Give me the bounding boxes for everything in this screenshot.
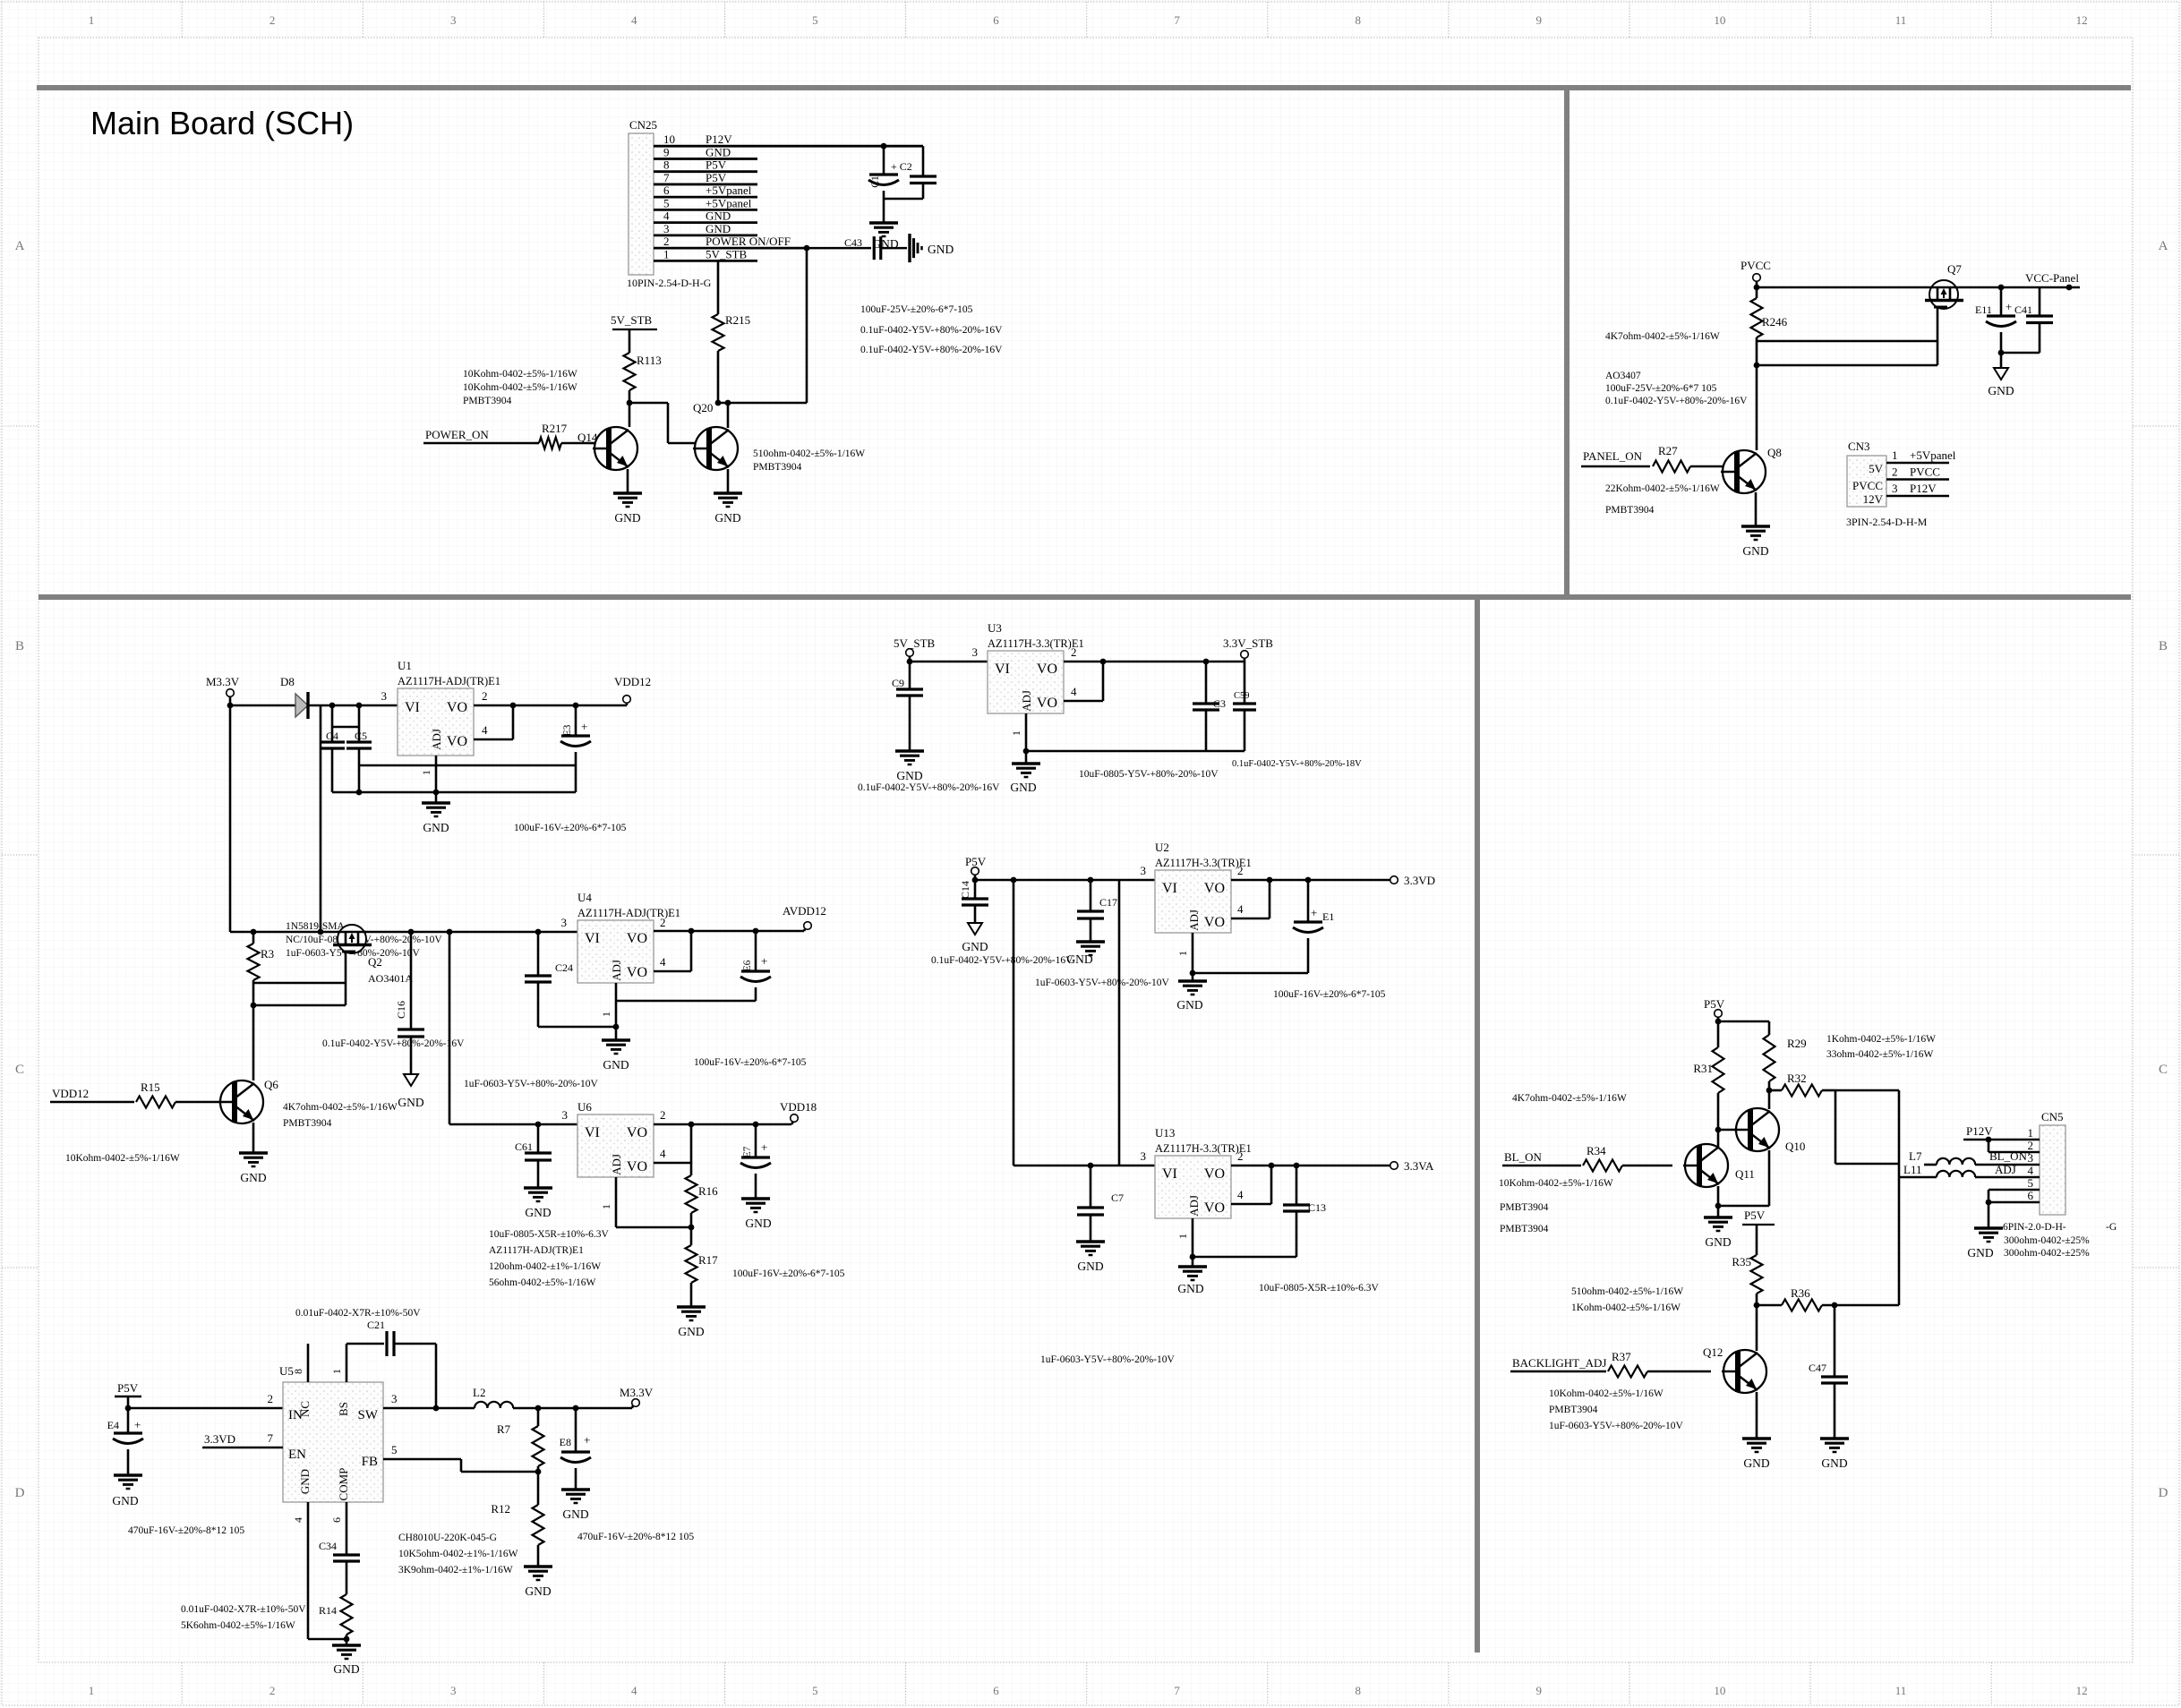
svg-text:4: 4 (660, 955, 666, 969)
svg-text:Q14: Q14 (577, 431, 598, 444)
capacitor E7 (740, 1124, 771, 1199)
svg-text:C4: C4 (326, 730, 338, 742)
wire U1 gnd rail lower (332, 790, 576, 796)
value 0.01uF C34 (181, 1604, 306, 1615)
svg-text:Q6: Q6 (264, 1078, 278, 1091)
value 0.1uF Q2 (322, 1038, 465, 1049)
svg-text:VO: VO (1204, 881, 1225, 896)
value 120ohm (489, 1261, 601, 1272)
svg-text:2: 2 (660, 916, 666, 929)
wire U3 output row (1064, 645, 1244, 664)
svg-text:1: 1 (420, 770, 432, 775)
net label P12V CN5 (1963, 1124, 2040, 1152)
svg-text:1: 1 (1892, 448, 1898, 462)
wire R32 rectangle (1835, 1090, 1899, 1164)
wire U1 output row (474, 703, 627, 709)
svg-text:10uF-0805-X5R-±10%-6.3V: 10uF-0805-X5R-±10%-6.3V (489, 1229, 609, 1240)
power P5V BL (1704, 997, 1725, 1021)
svg-text:GND: GND (1743, 1456, 1769, 1470)
svg-text:PMBT3904: PMBT3904 (463, 396, 512, 406)
svg-text:AO3407: AO3407 (1605, 371, 1641, 381)
svg-text:R246: R246 (1762, 315, 1788, 329)
svg-text:PMBT3904: PMBT3904 (1549, 1405, 1598, 1415)
wire Q8 collector (1756, 365, 1758, 450)
svg-text:AVDD12: AVDD12 (783, 904, 826, 918)
value 0.1uF C59 (1232, 759, 1362, 769)
wire Q10 collector (1768, 1090, 1771, 1109)
capacitor E4 (107, 1408, 143, 1475)
svg-text:+: + (581, 720, 587, 733)
svg-text:C3: C3 (1213, 697, 1226, 710)
svg-text:5: 5 (391, 1443, 398, 1456)
wire U4 gnd rail lower (538, 1024, 619, 1030)
svg-text:VO: VO (627, 965, 647, 980)
svg-text:CN3: CN3 (1848, 440, 1870, 453)
regulator U2 (1155, 841, 1252, 933)
svg-text:10Kohm-0402-±5%-1/16W: 10Kohm-0402-±5%-1/16W (463, 382, 577, 393)
wire U4 ADJ stem (600, 983, 616, 1040)
svg-text:ADJ: ADJ (610, 1154, 623, 1175)
svg-text:GND: GND (706, 145, 731, 158)
regulator U3 (988, 621, 1084, 713)
svg-text:8: 8 (1355, 13, 1361, 27)
svg-text:Q10: Q10 (1785, 1140, 1805, 1153)
svg-text:5: 5 (663, 196, 670, 209)
pin 3 U4 (561, 916, 568, 929)
wire U4 gnd rail upper (616, 1000, 756, 1003)
svg-text:C14: C14 (959, 881, 971, 899)
svg-text:470uF-16V-±20%-8*12 105: 470uF-16V-±20%-8*12 105 (128, 1525, 244, 1536)
wire U2 input row (972, 864, 1155, 883)
value 10PIN-2.54-D-H-G (627, 277, 712, 289)
value 3K9ohm (398, 1565, 513, 1576)
svg-text:33ohm-0402-±5%-1/16W: 33ohm-0402-±5%-1/16W (1826, 1049, 1934, 1060)
connector CN3 (1847, 440, 1886, 507)
regulator U5 (279, 1364, 383, 1502)
capacitor C21 (367, 1319, 436, 1356)
ground below C16 (398, 1074, 423, 1109)
ground below E8 (561, 1490, 590, 1521)
svg-text:6: 6 (993, 1684, 999, 1697)
svg-text:BACKLIGHT_ADJ: BACKLIGHT_ADJ (1512, 1356, 1606, 1370)
transistor Q10 (1718, 1108, 1805, 1153)
svg-text:R27: R27 (1658, 444, 1678, 457)
svg-text:PMBT3904: PMBT3904 (283, 1118, 332, 1129)
svg-text:Main Board (SCH): Main Board (SCH) (90, 105, 354, 141)
svg-text:R3: R3 (261, 947, 274, 961)
svg-text:M3.3V: M3.3V (620, 1386, 654, 1399)
svg-text:VI: VI (585, 1125, 600, 1140)
value 100uF-16V U4 (694, 1057, 807, 1068)
svg-text:AZ1117H-ADJ(TR)E1: AZ1117H-ADJ(TR)E1 (489, 1245, 584, 1256)
power P5V U5 (115, 1381, 141, 1408)
pin 1 stub U5 (330, 1344, 384, 1382)
svg-text:3: 3 (450, 13, 457, 27)
pin 2 U4 (660, 916, 666, 929)
svg-text:9: 9 (1536, 13, 1543, 27)
svg-text:PMBT3904: PMBT3904 (1500, 1224, 1549, 1234)
svg-text:2: 2 (482, 689, 488, 703)
connector CN5 (2040, 1110, 2066, 1215)
svg-text:P12V: P12V (1910, 482, 1937, 495)
transistor Q20 (693, 401, 738, 470)
value 10uF-0805 U3 (1079, 769, 1219, 780)
capacitor C4 (320, 705, 359, 792)
wire U3 input (907, 645, 988, 664)
power M3.3V (206, 675, 240, 705)
power P5V U2 (965, 855, 987, 880)
value 0.1uF C14 (931, 955, 1073, 966)
svg-text:1uF-0603-Y5V-+80%-20%-10V: 1uF-0603-Y5V-+80%-20%-10V (1035, 978, 1169, 988)
svg-text:3: 3 (391, 1392, 398, 1405)
wire U1 ADJ stem (420, 756, 436, 803)
svg-text:3.3VD: 3.3VD (204, 1432, 235, 1446)
net label VDD12 Q6 (50, 1087, 134, 1102)
svg-text:4: 4 (660, 1147, 666, 1160)
power P5V Q12 (1742, 1208, 1775, 1255)
svg-text:0.1uF-0402-Y5V-+80%-20%-16V: 0.1uF-0402-Y5V-+80%-20%-16V (1605, 396, 1748, 406)
pin 8 stub U5 (292, 1344, 308, 1382)
svg-text:+: + (2006, 300, 2012, 313)
net label PANEL_ON (1581, 449, 1650, 466)
wire VCC-Panel (1958, 285, 2080, 291)
svg-text:0.1uF-0402-Y5V-+80%-20%-16V: 0.1uF-0402-Y5V-+80%-20%-16V (858, 782, 1000, 793)
svg-text:4: 4 (292, 1517, 304, 1523)
svg-text:BL_ON’: BL_ON’ (1989, 1149, 2031, 1163)
capacitor C34 (319, 1540, 360, 1594)
svg-text:+5Vpanel: +5Vpanel (1910, 448, 1956, 462)
value PMBT3904 Q14 (463, 396, 512, 406)
wire Q11 emitter (1715, 1186, 1722, 1217)
svg-text:PANEL_ON: PANEL_ON (1583, 449, 1643, 463)
svg-text:22Kohm-0402-±5%-1/16W: 22Kohm-0402-±5%-1/16W (1605, 483, 1720, 494)
svg-text:GND: GND (1176, 998, 1202, 1012)
svg-text:VO: VO (1037, 662, 1057, 677)
ground below C1 C2 (869, 199, 899, 251)
svg-text:GND: GND (1742, 544, 1768, 558)
transistor Q11 (1683, 1144, 1755, 1187)
value 100uF-25V-20%-6*7-105 (860, 304, 973, 315)
svg-text:Q7: Q7 (1947, 262, 1962, 276)
CN5 pin stubs (1989, 1126, 2040, 1202)
wire U13 ADJ stem (1176, 1218, 1296, 1260)
svg-text:U3: U3 (988, 621, 1002, 635)
svg-text:R29: R29 (1787, 1037, 1807, 1050)
svg-text:U1: U1 (398, 659, 412, 672)
svg-text:1: 1 (1010, 730, 1022, 736)
svg-text:U13: U13 (1155, 1126, 1175, 1140)
svg-text:2: 2 (1892, 465, 1898, 479)
svg-text:12: 12 (2076, 1684, 2088, 1697)
ground below C47 (1820, 1439, 1849, 1470)
svg-text:ADJ: ADJ (1020, 690, 1033, 712)
svg-text:GND: GND (333, 1662, 359, 1676)
svg-text:L11: L11 (1903, 1163, 1921, 1176)
wire Q20 collector (725, 400, 731, 428)
value PMBT3904 Q11 (1500, 1202, 1549, 1213)
svg-text:4: 4 (1071, 685, 1077, 698)
resistor R7 (497, 1408, 544, 1474)
value 1uF-0603 Q12 (1549, 1421, 1683, 1431)
svg-text:Q12: Q12 (1703, 1345, 1723, 1359)
svg-text:VI: VI (585, 931, 600, 946)
value 510ohm Q20 (753, 448, 865, 459)
value 1uF-0603 C17 (1035, 978, 1169, 988)
svg-text:5K6ohm-0402-±5%-1/16W: 5K6ohm-0402-±5%-1/16W (181, 1620, 295, 1631)
svg-text:C9: C9 (892, 677, 904, 689)
pin 4 U1 (482, 723, 488, 737)
value PMBT3904 Q10 (1500, 1224, 1549, 1234)
svg-text:L2: L2 (473, 1386, 485, 1399)
regulator U1 (398, 659, 500, 756)
ground below Q8 (1741, 492, 1770, 558)
value 10Kohm line2 (463, 382, 577, 393)
svg-text:3.3VA: 3.3VA (1404, 1159, 1434, 1173)
value 10Kohm BL (1499, 1178, 1613, 1189)
svg-text:A: A (15, 239, 25, 253)
svg-text:P5V: P5V (706, 171, 727, 184)
svg-text:6PIN-2.0-D-H-: 6PIN-2.0-D-H- (2003, 1222, 2066, 1233)
value 0.01uF C21 (295, 1308, 421, 1319)
wire SW row (383, 1392, 475, 1408)
wire PVCC rail (1754, 285, 1929, 291)
svg-text:R14: R14 (319, 1604, 337, 1617)
svg-text:0.1uF-0402-Y5V-+80%-20%-16V: 0.1uF-0402-Y5V-+80%-20%-16V (860, 345, 1003, 355)
capacitor C13 (1283, 1166, 1326, 1257)
value 10Kohm Q12 (1549, 1388, 1664, 1399)
svg-text:VO: VO (1204, 1200, 1225, 1216)
ground below R14 (332, 1645, 361, 1676)
svg-text:PVCC: PVCC (1741, 259, 1771, 272)
value 22Kohm (1605, 483, 1720, 494)
svg-text:510ohm-0402-±5%-1/16W: 510ohm-0402-±5%-1/16W (1571, 1286, 1683, 1297)
svg-text:10uF-0805-Y5V-+80%-20%-10V: 10uF-0805-Y5V-+80%-20%-10V (1079, 769, 1219, 780)
wire U6 ADJ stem (600, 1177, 691, 1227)
capacitor C1 (868, 146, 912, 199)
resistor R36 (1757, 1286, 1899, 1311)
ground below U1 (422, 803, 450, 834)
inductor L11 (1899, 1163, 2040, 1177)
svg-text:AZ1117H-ADJ(TR)E1: AZ1117H-ADJ(TR)E1 (398, 675, 500, 687)
capacitor C14 (959, 880, 988, 923)
svg-text:CN5: CN5 (2041, 1110, 2064, 1123)
svg-text:P5V: P5V (965, 855, 987, 868)
svg-text:10Kohm-0402-±5%-1/16W: 10Kohm-0402-±5%-1/16W (1549, 1388, 1664, 1399)
svg-text:3: 3 (1141, 1149, 1147, 1163)
svg-text:SW: SW (358, 1408, 379, 1422)
svg-text:1: 1 (89, 13, 95, 27)
value 1uF-0603 U1 (286, 948, 420, 959)
svg-text:9: 9 (663, 145, 670, 158)
svg-text:6: 6 (993, 13, 999, 27)
svg-text:ADJ: ADJ (610, 960, 623, 981)
wire U13 pin4 jumper (1231, 1166, 1271, 1204)
svg-text:+: + (1311, 906, 1317, 919)
svg-text:PMBT3904: PMBT3904 (753, 462, 802, 473)
svg-text:4: 4 (663, 209, 670, 223)
resistor R12 (491, 1472, 543, 1567)
capacitor E1 (1293, 880, 1334, 973)
ground below R12 (524, 1567, 552, 1598)
svg-text:GND: GND (745, 1217, 771, 1230)
capacitor C7 (1077, 1166, 1124, 1242)
capacitor C17 (1077, 880, 1117, 942)
svg-text:GND: GND (896, 769, 922, 782)
svg-text:11: 11 (1895, 1684, 1907, 1697)
svg-text:VO: VO (1037, 696, 1057, 711)
ground below E4 (112, 1475, 142, 1507)
svg-text:GND: GND (240, 1171, 266, 1184)
title Main Board (SCH) (90, 105, 354, 141)
value 3PIN-2.54-D-H-M (1846, 516, 1928, 528)
svg-text:E6: E6 (742, 960, 753, 971)
value 1Kohm BL (1826, 1034, 1936, 1045)
transistor Q2 (333, 925, 413, 985)
ground below Q6 (239, 1123, 268, 1184)
wire Q14 collector loop (627, 400, 696, 443)
svg-text:4K7ohm-0402-±5%-1/16W: 4K7ohm-0402-±5%-1/16W (1512, 1093, 1627, 1104)
svg-text:GND: GND (298, 1469, 312, 1494)
capacitor C47 (1809, 1305, 1848, 1439)
svg-text:+ C2: + C2 (891, 160, 912, 173)
ground below E7 (741, 1199, 772, 1230)
svg-text:10Kohm-0402-±5%-1/16W: 10Kohm-0402-±5%-1/16W (463, 369, 577, 380)
wire P5V drop right (1118, 880, 1121, 1166)
svg-text:C7: C7 (1111, 1191, 1124, 1204)
svg-text:2: 2 (268, 1392, 274, 1405)
value 510ohm BL (1571, 1286, 1683, 1297)
svg-text:E11: E11 (1975, 303, 1992, 316)
svg-text:2: 2 (660, 1108, 666, 1122)
svg-text:120ohm-0402-±1%-1/16W: 120ohm-0402-±1%-1/16W (489, 1261, 601, 1272)
svg-text:0.01uF-0402-X7R-±10%-50V: 0.01uF-0402-X7R-±10%-50V (181, 1604, 306, 1615)
svg-text:1: 1 (1176, 1234, 1189, 1239)
svg-text:P5V: P5V (117, 1381, 139, 1395)
wire Q12 collector (1756, 1305, 1758, 1351)
svg-text:CH8010U-220K-045-G: CH8010U-220K-045-G (398, 1533, 497, 1543)
value 5K6ohm R14 (181, 1620, 295, 1631)
resistor R217 (535, 422, 590, 449)
resistor R17 (686, 1227, 719, 1307)
value PMBT3904 Q6 (283, 1118, 332, 1129)
resistor R34 (1583, 1144, 1672, 1172)
svg-text:Q8: Q8 (1767, 446, 1782, 459)
svg-text:A: A (2159, 239, 2168, 253)
value PMBT3904 Q20 (753, 462, 802, 473)
value 0.1uF-0402-Y5V line2 (860, 345, 1003, 355)
value 0.1uF C9 (858, 782, 1000, 793)
svg-text:VO: VO (1204, 1166, 1225, 1182)
wire U6 output row (654, 1108, 791, 1127)
wire Q10 emitter (1718, 1150, 1769, 1206)
svg-text:VI: VI (1162, 1166, 1177, 1182)
ground below C7 (1076, 1242, 1105, 1273)
svg-text:GND: GND (678, 1325, 704, 1338)
value 470uF E8 (577, 1532, 694, 1542)
svg-text:C1: C1 (870, 175, 881, 188)
wire M3.3V row (227, 703, 295, 709)
svg-text:ADJ: ADJ (1995, 1163, 2016, 1176)
resistor R27 (1653, 444, 1726, 473)
svg-text:2: 2 (269, 13, 276, 27)
svg-text:NC: NC (298, 1401, 312, 1417)
svg-text:R36: R36 (1791, 1286, 1810, 1300)
value 300ohm 1 (2004, 1235, 2090, 1246)
svg-text:100uF-16V-±20%-6*7-105: 100uF-16V-±20%-6*7-105 (514, 823, 627, 833)
regulator U13 (1155, 1126, 1252, 1218)
svg-text:U4: U4 (577, 891, 592, 904)
svg-text:GND: GND (525, 1584, 551, 1598)
value 1uF-0603 U6 area (464, 1079, 598, 1089)
value 1N5819-SMA (286, 921, 346, 932)
wire P12V to caps (881, 143, 887, 149)
svg-text:GND: GND (714, 511, 740, 525)
wire M3.3V vertical rail (229, 705, 232, 932)
wire CN5 gnd (1986, 1190, 1992, 1228)
svg-text:GND: GND (603, 1058, 629, 1072)
svg-text:GND: GND (1967, 1246, 1993, 1260)
svg-text:GND: GND (112, 1494, 138, 1507)
value 100uF-16V E7 (732, 1268, 845, 1279)
capacitor E11 (1975, 287, 2016, 353)
svg-text:10K5ohm-0402-±1%-1/16W: 10K5ohm-0402-±1%-1/16W (398, 1549, 518, 1559)
svg-text:1uF-0603-Y5V-+80%-20%-10V: 1uF-0603-Y5V-+80%-20%-10V (1549, 1421, 1683, 1431)
wire U1 pin4 jumper (474, 705, 513, 739)
resistor R15 (136, 1080, 221, 1108)
svg-text:100uF-25V-±20%-6*7 105: 100uF-25V-±20%-6*7 105 (1605, 383, 1717, 394)
svg-text:0.1uF-0402-Y5V-+80%-20%-16V: 0.1uF-0402-Y5V-+80%-20%-16V (322, 1038, 465, 1049)
svg-text:1: 1 (600, 1012, 612, 1017)
wire M3.3V lower rail (230, 929, 577, 935)
ground below Q12 (1742, 1439, 1771, 1470)
svg-text:D8: D8 (280, 675, 295, 688)
svg-text:P5V: P5V (706, 158, 727, 172)
svg-text:C: C (15, 1063, 24, 1077)
pin 6 stub U5 (330, 1502, 346, 1555)
svg-text:C5: C5 (355, 730, 367, 742)
svg-text:U6: U6 (577, 1100, 592, 1114)
value 0.1uF Q7 area (1605, 396, 1748, 406)
wire Q2 gate loop (251, 952, 346, 1008)
ground below C9 (895, 751, 924, 782)
svg-text:3: 3 (1141, 864, 1147, 877)
value 10uF-0805 U6 (489, 1229, 609, 1240)
value 1uF-0603 C7 (1040, 1354, 1175, 1365)
wire POWER ON/OFF (719, 245, 871, 403)
CN3 pin stubs (1886, 448, 1956, 496)
value PMBT3904 Q8 (1605, 505, 1655, 516)
svg-text:8: 8 (292, 1369, 304, 1374)
ground below U2 (1176, 973, 1207, 1012)
net label VCC-Panel (2025, 271, 2079, 285)
value 4K7ohm Q8 area (1605, 331, 1720, 342)
svg-text:3: 3 (1892, 482, 1898, 495)
transistor Q7 (1925, 262, 1963, 309)
svg-text:VO: VO (447, 734, 467, 749)
svg-text:VI: VI (1162, 881, 1177, 896)
svg-text:C43: C43 (844, 236, 862, 249)
svg-text:3: 3 (562, 1108, 569, 1122)
svg-text:R113: R113 (637, 354, 662, 367)
svg-text:B: B (15, 639, 24, 653)
wire D8 node vertical (320, 705, 322, 932)
connector CN25 (629, 118, 657, 275)
power AVDD12 (783, 904, 826, 931)
svg-text:GND: GND (928, 243, 954, 256)
wire U2 pin4 jumper (1231, 880, 1270, 918)
pin 2 U1 (482, 689, 488, 703)
svg-text:2: 2 (1071, 645, 1077, 659)
